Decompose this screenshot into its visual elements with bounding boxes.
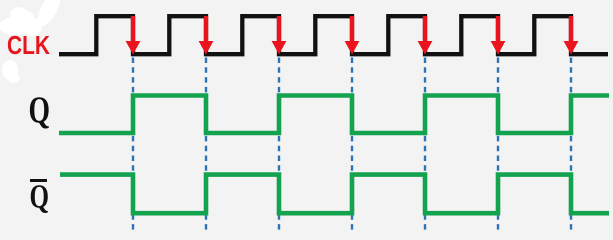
svg-text:CLK: CLK <box>7 30 50 60</box>
timing guide line t2 <box>205 58 207 232</box>
CLK waveform <box>59 16 608 54</box>
falling-edge arrow A3 <box>272 16 287 55</box>
timing guide line t6 <box>497 58 499 232</box>
Q waveform <box>59 96 609 134</box>
timing guide line t1 <box>132 58 134 232</box>
timing guide line t3 <box>278 58 280 232</box>
Q-bar waveform <box>60 175 609 214</box>
falling-edge arrow A5 <box>418 16 433 55</box>
falling-edge arrow A7 <box>564 16 579 55</box>
timing guide line t5 <box>424 58 426 232</box>
falling-edge arrow A6 <box>491 16 506 55</box>
timing guide line t7 <box>570 58 572 232</box>
falling-edge arrow A4 <box>345 16 360 55</box>
svg-text:Q: Q <box>30 179 50 216</box>
Q-bar label <box>30 179 50 216</box>
falling-edge arrow A2 <box>199 16 214 55</box>
falling-edge arrow A1 <box>126 16 141 55</box>
timing guide line t4 <box>351 58 353 232</box>
svg-text:Q: Q <box>29 90 51 132</box>
